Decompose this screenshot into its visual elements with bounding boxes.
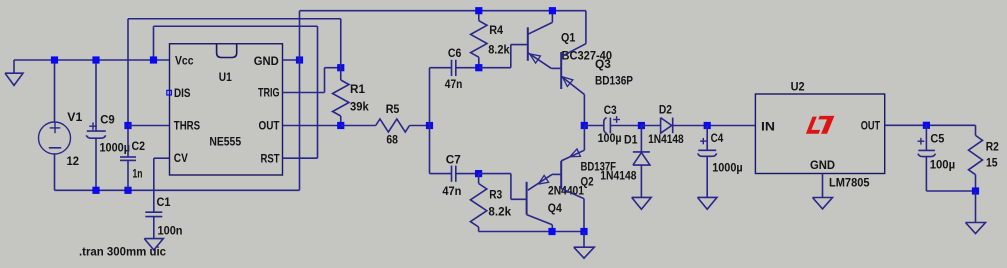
node junction R5 right xyxy=(426,122,433,129)
svg-text:BD136P: BD136P xyxy=(595,74,633,88)
svg-text:47n: 47n xyxy=(442,184,461,198)
transistor Q3 BD136P xyxy=(560,52,562,89)
svg-text:Q4: Q4 xyxy=(548,201,562,215)
capacitor C2 (1n) xyxy=(120,156,136,158)
wire CV pin to C1 xyxy=(154,157,170,159)
svg-text:RST: RST xyxy=(261,152,281,166)
wire GND pin stub xyxy=(283,59,300,61)
ground transistor stage xyxy=(583,232,585,248)
ground U2 GND pin xyxy=(822,174,824,198)
resistor R2 15 xyxy=(975,125,977,135)
svg-text:R3: R3 xyxy=(489,188,502,202)
diode D2 1N4148 xyxy=(641,125,660,127)
svg-text:V1: V1 xyxy=(67,110,82,124)
capacitor C7 47n xyxy=(451,166,453,182)
svg-text:R4: R4 xyxy=(489,23,503,37)
svg-text:THRS: THRS xyxy=(174,119,200,133)
transistor Q1 BC327-40 xyxy=(527,27,529,61)
node junction V1/+12V xyxy=(51,56,58,63)
wire emitter bottom rail xyxy=(479,231,584,233)
svg-text:Q2: Q2 xyxy=(581,175,594,189)
LT logo (red) xyxy=(806,117,820,134)
svg-text:15: 15 xyxy=(986,156,998,170)
wire OUT pin stub xyxy=(283,125,341,127)
svg-text:.tran 300mm uic: .tran 300mm uic xyxy=(79,245,166,259)
node junction R1 bottom / OUT xyxy=(337,122,344,129)
capacitor C4 1000u polarized xyxy=(706,126,708,151)
svg-text:U1: U1 xyxy=(219,70,232,84)
wire TRIG pin stub xyxy=(283,92,325,94)
svg-text:R5: R5 xyxy=(386,102,400,116)
wire feedback line B (THRS/TRIG net, top) xyxy=(128,18,341,20)
node junction D1 xyxy=(638,122,645,129)
wire line A (top rail to transistors) xyxy=(300,10,586,12)
node junction Vcc/RST xyxy=(150,56,157,63)
svg-text:GND: GND xyxy=(254,54,279,68)
node junction R4 bottom / C6 xyxy=(475,64,482,71)
node junction C5 top xyxy=(923,122,930,129)
node junction R4 top / line A xyxy=(475,7,482,14)
svg-text:C2: C2 xyxy=(132,139,146,153)
capacitor C6 47n xyxy=(430,67,452,69)
transistor Q2 BD137F xyxy=(560,161,562,189)
capacitor C1 (100n) xyxy=(145,211,162,213)
node junction R1 top xyxy=(337,64,344,71)
svg-text:100n: 100n xyxy=(158,224,183,238)
node junction GND pin xyxy=(296,56,303,63)
node junction Q4 emitter xyxy=(548,228,555,235)
wire vertical THRS/C2 column xyxy=(127,19,129,157)
resistor R4 8.2k xyxy=(478,11,480,21)
node junction THRS xyxy=(124,122,131,129)
node junction C9 bottom xyxy=(92,187,99,194)
svg-text:C1: C1 xyxy=(157,195,171,209)
wire RST pin stub xyxy=(283,157,318,159)
svg-text:D1: D1 xyxy=(624,133,638,147)
ground C1 xyxy=(144,239,163,250)
capacitor C3 100u polarized xyxy=(584,125,603,127)
wire THRS pin xyxy=(128,125,170,127)
svg-text:12: 12 xyxy=(67,154,80,168)
voltage source V1 xyxy=(54,60,56,122)
wire C7 row xyxy=(430,173,452,175)
svg-text:DIS: DIS xyxy=(174,86,191,100)
wire C5 bottom xyxy=(926,190,975,192)
svg-text:R1: R1 xyxy=(350,82,365,96)
svg-text:TRIG: TRIG xyxy=(258,86,280,100)
svg-text:47n: 47n xyxy=(445,77,463,91)
svg-text:100µ: 100µ xyxy=(598,131,622,145)
svg-text:CV: CV xyxy=(174,151,188,165)
ground R2/C5 xyxy=(975,191,977,223)
wire C7 to Q4 base xyxy=(479,173,511,175)
svg-text:Q3: Q3 xyxy=(595,57,611,71)
svg-text:LM7805: LM7805 xyxy=(829,175,870,189)
resistor R1 39k xyxy=(340,19,342,80)
svg-text:1n: 1n xyxy=(133,167,143,181)
svg-text:Vcc: Vcc xyxy=(175,54,194,68)
wire C6/C7 vertical column xyxy=(429,68,431,174)
node junction C2 bottom xyxy=(124,187,131,194)
svg-text:OUT: OUT xyxy=(861,118,881,132)
op-amp/timer U1 NE555 box xyxy=(170,44,283,175)
svg-text:8.2k: 8.2k xyxy=(488,42,510,56)
capacitor C9 (1000u polarized) xyxy=(95,60,97,131)
transistor Q4 2N4401 xyxy=(526,182,528,215)
diode D1 1N4148 (clamp to ground) xyxy=(640,126,642,152)
svg-text:C7: C7 xyxy=(446,153,461,167)
svg-text:C9: C9 xyxy=(100,113,115,127)
pin DIS (open square, unconnected) xyxy=(167,90,172,95)
wire feedback line C (RST to Vcc, top) xyxy=(154,25,318,27)
wire +12V rail (top-left horizontal) xyxy=(14,59,170,61)
wire big vertical GND column xyxy=(299,11,301,191)
ground D1 xyxy=(632,197,652,209)
svg-text:U2: U2 xyxy=(791,79,805,93)
svg-text:C4: C4 xyxy=(711,131,724,145)
svg-text:1000µ: 1000µ xyxy=(100,141,131,155)
svg-text:1N4148: 1N4148 xyxy=(648,132,684,146)
node junction output node xyxy=(581,122,588,129)
wire U2 OUT xyxy=(885,124,976,126)
ground C4 xyxy=(697,197,717,209)
svg-text:C5: C5 xyxy=(930,131,944,145)
svg-text:NE555: NE555 xyxy=(209,135,241,149)
svg-text:GND: GND xyxy=(810,158,835,172)
node junction C4 xyxy=(704,122,711,129)
svg-text:D2: D2 xyxy=(659,102,672,116)
svg-text:C6: C6 xyxy=(448,46,462,60)
node junction Q1 collector / line A xyxy=(549,7,556,14)
svg-text:C3: C3 xyxy=(604,103,617,117)
svg-text:100µ: 100µ xyxy=(930,158,955,172)
node junction C9 top xyxy=(92,56,99,63)
regulator U2 LM7805 box xyxy=(755,94,884,174)
ground (top-left) xyxy=(13,60,15,73)
svg-text:BD137F: BD137F xyxy=(581,160,617,174)
svg-text:OUT: OUT xyxy=(259,119,281,133)
resistor R5 68 xyxy=(341,125,376,127)
wire C6 to Q1 base xyxy=(479,67,511,69)
node junction R3 top / C7 xyxy=(475,170,482,177)
resistor R3 8.2k xyxy=(478,174,480,184)
node junction R2 bottom / ground xyxy=(972,187,979,194)
svg-text:8.2k: 8.2k xyxy=(488,204,511,218)
svg-text:1000µ: 1000µ xyxy=(712,161,743,175)
svg-text:R2: R2 xyxy=(986,140,999,154)
node junction Q2 emitter / ground xyxy=(580,228,587,235)
svg-text:68: 68 xyxy=(386,133,398,147)
ground wire (bottom-left horizontal) xyxy=(55,189,300,191)
svg-text:IN: IN xyxy=(761,119,775,133)
capacitor C5 100u polarized xyxy=(925,125,927,150)
svg-text:39k: 39k xyxy=(350,100,369,114)
svg-text:Q1: Q1 xyxy=(561,30,576,44)
